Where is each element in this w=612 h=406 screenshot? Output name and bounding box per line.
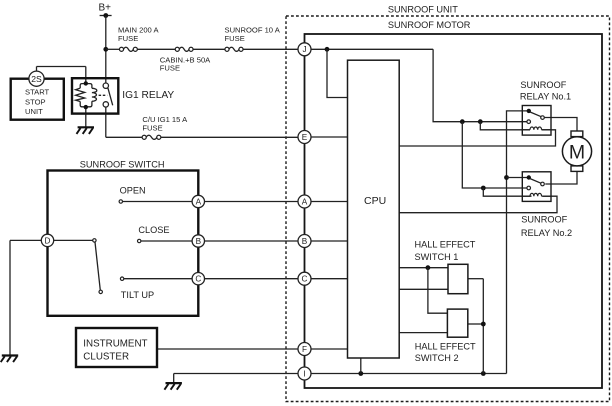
- svg-text:B+: B+: [99, 3, 112, 14]
- svg-text:OPEN: OPEN: [120, 185, 146, 195]
- svg-text:INSTRUMENT: INSTRUMENT: [83, 338, 147, 349]
- svg-text:I: I: [303, 369, 305, 378]
- svg-text:SUNROOF: SUNROOF: [520, 80, 566, 90]
- svg-text:RELAY No.2: RELAY No.2: [521, 228, 572, 238]
- svg-text:TILT UP: TILT UP: [121, 290, 154, 300]
- svg-text:HALL EFFECT: HALL EFFECT: [415, 342, 476, 352]
- svg-text:CLOSE: CLOSE: [138, 225, 169, 235]
- svg-text:C: C: [302, 275, 308, 284]
- svg-text:HALL EFFECT: HALL EFFECT: [415, 239, 476, 249]
- svg-text:CPU: CPU: [364, 195, 386, 207]
- svg-text:CLUSTER: CLUSTER: [83, 352, 129, 363]
- svg-text:FUSE: FUSE: [225, 34, 245, 43]
- svg-text:SUNROOF MOTOR: SUNROOF MOTOR: [388, 20, 471, 30]
- svg-text:B: B: [196, 237, 202, 246]
- svg-text:UNIT: UNIT: [25, 107, 43, 116]
- svg-text:C: C: [195, 275, 201, 284]
- svg-text:A: A: [302, 197, 308, 206]
- svg-text:RELAY No.1: RELAY No.1: [520, 92, 571, 102]
- svg-text:M: M: [569, 142, 585, 164]
- svg-text:2S: 2S: [31, 74, 42, 84]
- svg-text:A: A: [196, 197, 202, 206]
- svg-text:FUSE: FUSE: [160, 64, 180, 73]
- svg-text:STOP: STOP: [25, 97, 46, 106]
- svg-text:J: J: [302, 45, 306, 54]
- svg-text:SUNROOF SWITCH: SUNROOF SWITCH: [80, 159, 165, 169]
- svg-text:SUNROOF UNIT: SUNROOF UNIT: [388, 5, 458, 15]
- svg-text:FUSE: FUSE: [142, 123, 162, 132]
- svg-text:IG1 RELAY: IG1 RELAY: [122, 90, 174, 101]
- svg-text:D: D: [45, 236, 51, 245]
- svg-text:FUSE: FUSE: [118, 34, 138, 43]
- svg-text:E: E: [302, 133, 308, 142]
- svg-text:B: B: [302, 237, 308, 246]
- svg-text:SWITCH 1: SWITCH 1: [415, 252, 459, 262]
- svg-text:F: F: [302, 345, 307, 354]
- svg-text:SUNROOF: SUNROOF: [521, 214, 567, 224]
- svg-text:SWITCH 2: SWITCH 2: [415, 353, 459, 363]
- svg-text:START: START: [25, 88, 50, 97]
